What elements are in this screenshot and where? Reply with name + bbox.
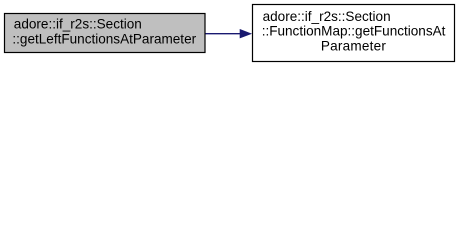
svg-text:Parameter: Parameter	[321, 38, 386, 53]
svg-text:adore::if_r2s::Section: adore::if_r2s::Section	[14, 17, 142, 32]
svg-text:adore::if_r2s::Section: adore::if_r2s::Section	[263, 9, 391, 24]
node: adore::if_r2s::Section::getLeftFunctionsAtParameter (current, grey)	[5, 14, 206, 53]
svg-text:::FunctionMap::getFunctionsAt: ::FunctionMap::getFunctionsAt	[262, 24, 446, 39]
call edge arrow	[206, 29, 252, 38]
node: adore::if_r2s::Section::FunctionMap::getFunctionsAtParameter	[253, 5, 455, 62]
arrowhead	[240, 29, 251, 38]
wire: edge shaft	[206, 33, 242, 35]
svg-text:::getLeftFunctionsAtParameter: ::getLeftFunctionsAtParameter	[12, 31, 196, 46]
